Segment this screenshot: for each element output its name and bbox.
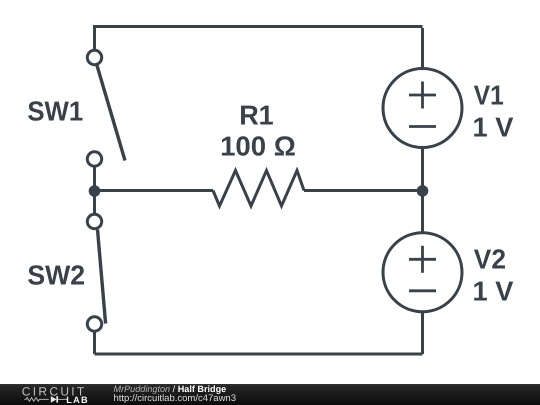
switch SW1 terminal top: [87, 50, 101, 64]
resistor R1 zigzag: [213, 171, 304, 207]
switch SW1 terminal bottom: [87, 152, 101, 166]
wire SW1 top vertical: [93, 25, 96, 49]
svg-text:SW2: SW2: [27, 260, 85, 291]
V2 minus sign: [409, 289, 436, 292]
switch SW1 blade: [97, 66, 125, 161]
wire top horizontal: [95, 25, 423, 28]
voltage source V2 circle: [383, 233, 462, 312]
svg-text:SW1: SW1: [27, 96, 83, 127]
wire node A to resistor: [95, 189, 214, 192]
wire SW1 bottom to node A: [93, 166, 96, 191]
wire V1 top vertical: [421, 28, 424, 67]
V1 minus sign: [409, 125, 436, 128]
switch SW2 blade: [98, 230, 106, 324]
wire resistor to node B: [304, 189, 423, 192]
wire SW2 bottom vertical: [93, 331, 96, 354]
CircuitLab logo: [0, 384, 110, 405]
wire node A to SW2: [93, 191, 96, 215]
node B junction dot: [417, 185, 429, 197]
wire bottom horizontal: [95, 353, 423, 356]
attribution text: [113, 382, 115, 384]
svg-text:1 V: 1 V: [473, 111, 515, 142]
svg-text:R1: R1: [239, 99, 274, 130]
V2 plus sign: [409, 246, 436, 273]
switch SW2 terminal bottom: [87, 317, 101, 331]
footer bar: [0, 384, 540, 405]
wire V2 bottom vertical: [421, 313, 424, 354]
voltage source V1 circle: [383, 69, 462, 148]
V1 plus sign: [409, 82, 436, 109]
wire V2 top to node B: [421, 191, 424, 232]
svg-text:V2: V2: [474, 243, 506, 274]
svg-text:1 V: 1 V: [473, 276, 515, 307]
svg-text:LAB: LAB: [66, 395, 89, 405]
svg-text:100 Ω: 100 Ω: [220, 131, 296, 162]
wire node B to V1: [421, 149, 424, 191]
node A junction dot: [89, 185, 101, 197]
svg-text:V1: V1: [474, 79, 504, 110]
switch SW2 terminal top: [87, 214, 101, 228]
